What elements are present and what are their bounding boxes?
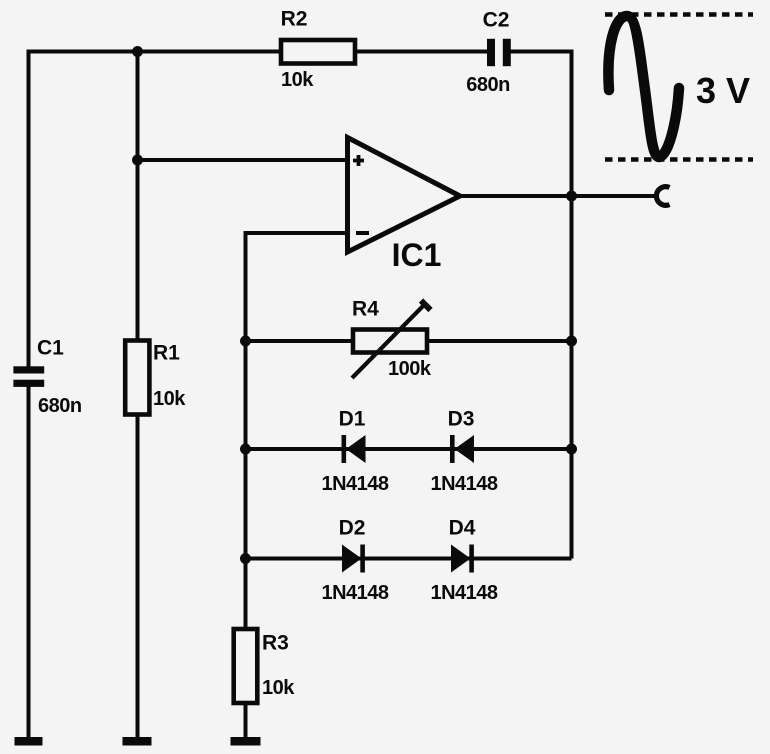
svg-text:R1: R1 — [153, 342, 180, 365]
svg-text:R4: R4 — [352, 298, 379, 321]
node R4 left junction — [240, 336, 251, 347]
svg-text:3 V: 3 V — [696, 70, 750, 111]
svg-text:IC1: IC1 — [392, 237, 442, 273]
wire right vertical rail — [570, 52, 574, 559]
wire R4 row right segment — [427, 339, 572, 343]
svg-text:1N4148: 1N4148 — [430, 473, 497, 495]
svg-text:D3: D3 — [448, 408, 475, 431]
svg-text:R3: R3 — [262, 632, 289, 655]
wire R4 row left segment — [246, 339, 354, 343]
annotation lower dashed level line — [605, 157, 753, 162]
wire feedback vertical rail — [244, 231, 248, 630]
svg-text:10k: 10k — [262, 677, 295, 699]
svg-text:D4: D4 — [449, 517, 476, 540]
wire left vertical rail upper (to C1) — [27, 50, 31, 367]
resistor R3 — [234, 629, 296, 703]
svg-text:10k: 10k — [281, 69, 314, 91]
svg-text:R2: R2 — [281, 8, 308, 31]
annotation sine waveform — [608, 16, 679, 157]
svg-text:680n: 680n — [38, 395, 82, 417]
node noninverting input branch junction — [132, 155, 143, 166]
svg-text:680n: 680n — [466, 74, 510, 96]
node R4 right junction — [566, 336, 577, 347]
ground (left rail) — [15, 737, 43, 746]
potentiometer R4 — [352, 298, 432, 381]
node D1 row left junction — [240, 444, 251, 455]
svg-text:D1: D1 — [339, 408, 366, 431]
wire top horizontal left segment — [27, 50, 282, 54]
svg-text:1N4148: 1N4148 — [321, 582, 388, 604]
op-amp IC1 — [348, 138, 461, 274]
svg-text:1N4148: 1N4148 — [430, 582, 497, 604]
wire top horizontal between R2 and C2 — [355, 50, 487, 54]
svg-text:100k: 100k — [388, 358, 432, 380]
wire left vertical rail lower (C1 to ground) — [27, 387, 31, 739]
annotation 3 V amplitude label — [696, 70, 750, 111]
capacitor C1 — [13, 337, 81, 418]
output terminal connector — [656, 187, 669, 206]
capacitor C2 — [466, 9, 511, 97]
wire op-amp output — [460, 194, 656, 198]
resistor R1 — [125, 341, 186, 415]
wire R1 branch vertical upper — [136, 52, 140, 343]
wire D1 row — [246, 447, 572, 451]
svg-text:10k: 10k — [153, 388, 186, 410]
node output junction — [566, 191, 577, 202]
node D1 row right junction — [566, 444, 577, 455]
wire D2 row — [246, 557, 572, 561]
diode D4 — [430, 517, 497, 605]
node D2 row left junction — [240, 553, 251, 564]
diode D1 — [321, 408, 388, 496]
ground (R1 rail) — [123, 737, 152, 746]
svg-text:D2: D2 — [339, 517, 366, 540]
wire top horizontal between C2 and right rail — [511, 50, 574, 54]
diode D2 — [321, 517, 388, 605]
annotation upper dashed level line — [605, 12, 753, 17]
node top wire / R1 branch junction — [132, 46, 143, 57]
ground (R3 rail) — [231, 737, 261, 746]
wire to op-amp noninverting input — [138, 158, 348, 162]
svg-text:C1: C1 — [37, 337, 64, 360]
svg-text:1N4148: 1N4148 — [321, 473, 388, 495]
wire op-amp inverting input horizontal — [244, 231, 347, 235]
wire R3 to ground — [244, 703, 248, 738]
diode D3 — [430, 408, 497, 496]
resistor R2 — [281, 8, 355, 92]
svg-text:C2: C2 — [483, 9, 510, 32]
wire R1 branch vertical lower (R1 to ground) — [136, 413, 140, 738]
